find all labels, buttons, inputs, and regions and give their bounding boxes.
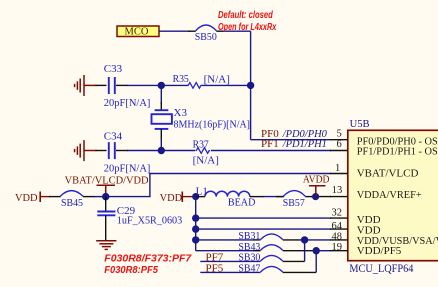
- node pin19/SB47: [313, 247, 320, 254]
- svg-text:F030R8:PF5: F030R8:PF5: [104, 264, 158, 276]
- pin 48 stub: [330, 239, 348, 241]
- node AVDD: [312, 193, 319, 200]
- wire MCO to SB50: [159, 30, 190, 32]
- pin 64 stub: [330, 228, 348, 230]
- pin stub SB57 right: [305, 196, 312, 198]
- node VDD/L1: [192, 193, 199, 200]
- svg-text:1: 1: [335, 163, 340, 174]
- resistor R37: [161, 150, 195, 152]
- node X3 bottom: [158, 147, 165, 154]
- node pin48/SB30: [301, 236, 308, 243]
- pin stub SB45 right: [83, 196, 95, 198]
- svg-text:20pF[N/A]: 20pF[N/A]: [104, 162, 151, 174]
- wire SB57 to pin 13: [311, 196, 331, 198]
- capacitor C29: [105, 197, 107, 212]
- svg-text:SB57: SB57: [283, 197, 305, 209]
- svg-text:R35: R35: [173, 73, 190, 85]
- wire PF0 net: [251, 139, 331, 141]
- inductor L1 BEAD: [196, 196, 205, 198]
- pin stub SB57 left: [276, 196, 283, 198]
- svg-text:VDD: VDD: [15, 192, 38, 204]
- wire pin 64 net: [196, 228, 331, 230]
- wire SB47/PF5 row: [200, 271, 260, 273]
- node SB31 riser: [192, 236, 199, 243]
- svg-text:F030R8/F373:PF7: F030R8/F373:PF7: [104, 252, 192, 264]
- pin 5 stub: [330, 139, 348, 141]
- svg-text:AVDD: AVDD: [303, 174, 330, 186]
- svg-text:L1: L1: [196, 185, 208, 197]
- node R35/SB50: [247, 82, 254, 89]
- wire C33 to X3 node: [127, 84, 161, 86]
- solder bridge SB43: [261, 245, 283, 251]
- svg-text:BEAD: BEAD: [228, 196, 256, 208]
- solder bridge SB50: [196, 25, 217, 31]
- svg-text:PF1: PF1: [261, 138, 279, 150]
- solder bridge SB30: [261, 255, 283, 261]
- ground (C34): [75, 140, 97, 161]
- pin 6 stub: [330, 150, 348, 152]
- wire C34 to X3 node: [127, 150, 161, 152]
- capacitor C34: [96, 150, 107, 152]
- VDD riser: [195, 197, 197, 251]
- wire SB47 up to pin19 node: [315, 251, 317, 273]
- svg-text:VDD/PF5: VDD/PF5: [357, 245, 402, 257]
- wire pin 32 net: [196, 217, 331, 219]
- resistor R35: [161, 84, 188, 86]
- svg-text:PF5: PF5: [206, 263, 224, 275]
- svg-text:8MHz(16pF)[N/A]: 8MHz(16pF)[N/A]: [174, 119, 251, 131]
- wire SB50 to riser: [222, 30, 251, 32]
- svg-text:VBAT/VLCD: VBAT/VLCD: [357, 167, 419, 179]
- svg-text:[N/A]: [N/A]: [193, 155, 219, 167]
- svg-text:[N/A]: [N/A]: [204, 74, 230, 86]
- solder bridge SB57: [283, 191, 305, 197]
- solder bridge SB47: [261, 266, 283, 272]
- pin 1 stub: [330, 173, 348, 175]
- svg-text:Open for L4xxRx: Open for L4xxRx: [218, 21, 277, 33]
- svg-text:MCU_LQFP64: MCU_LQFP64: [349, 263, 413, 275]
- pin 13 stub: [330, 196, 348, 198]
- solder bridge SB31: [261, 234, 283, 240]
- svg-text:SB50: SB50: [195, 31, 217, 43]
- svg-text:C34: C34: [104, 131, 123, 143]
- svg-text:SB45: SB45: [61, 197, 83, 209]
- svg-text:PF1/PD1/PH1 - OSC: PF1/PD1/PH1 - OSC: [357, 146, 438, 158]
- svg-text:Default: closed: Default: closed: [218, 9, 273, 21]
- wire SB43 row: [196, 250, 254, 252]
- MCU block U5B: [348, 130, 438, 260]
- node VBAT: [102, 193, 109, 200]
- node pin64: [192, 225, 199, 232]
- svg-text:C33: C33: [104, 63, 123, 75]
- wire riser to PF0: [250, 31, 252, 140]
- svg-text:48: 48: [332, 231, 343, 242]
- crystal X3: [160, 85, 162, 104]
- wire L1 to SB57: [263, 196, 284, 198]
- wire SB45 to node: [94, 196, 106, 198]
- pin stub SB50 right: [216, 30, 224, 32]
- svg-text:5: 5: [337, 128, 342, 139]
- wire to pin 48: [305, 239, 331, 241]
- svg-text:1uF_X5R_0603: 1uF_X5R_0603: [117, 215, 183, 227]
- svg-text:SB47: SB47: [238, 263, 260, 275]
- svg-text:X3: X3: [174, 107, 188, 119]
- svg-text:19: 19: [332, 242, 343, 253]
- pin 19 stub: [330, 250, 348, 252]
- wire SB30 up to pin48 node: [304, 240, 306, 262]
- svg-text:32: 32: [332, 208, 343, 219]
- pin 32 stub: [330, 217, 348, 219]
- wire SB30/PF7 row: [200, 260, 260, 262]
- node pin32: [192, 214, 199, 221]
- ground (C33): [75, 75, 97, 96]
- svg-text:20pF[N/A]: 20pF[N/A]: [104, 97, 151, 109]
- node X3 top: [158, 82, 165, 89]
- solder bridge SB45: [60, 191, 83, 197]
- ground (C29): [96, 241, 116, 250]
- svg-text:/PD1/PH1: /PD1/PH1: [282, 138, 327, 150]
- svg-text:MCO: MCO: [125, 26, 149, 37]
- wire PF1 net: [211, 150, 331, 152]
- pin stub SB50 left: [188, 30, 196, 32]
- pin stub SB45 left: [49, 196, 61, 198]
- svg-text:VDDA/VREF+: VDDA/VREF+: [357, 189, 422, 201]
- MCO port: [117, 26, 159, 37]
- wire to pin 19: [316, 250, 331, 252]
- svg-text:R37: R37: [193, 138, 210, 150]
- wire SB31 row: [196, 239, 254, 241]
- wire VBAT node to pin 1: [106, 174, 331, 197]
- svg-text:13: 13: [332, 185, 343, 196]
- capacitor C33: [96, 84, 107, 86]
- svg-text:U5B: U5B: [350, 118, 370, 130]
- svg-text:VDD: VDD: [160, 192, 183, 204]
- svg-text:6: 6: [337, 139, 342, 150]
